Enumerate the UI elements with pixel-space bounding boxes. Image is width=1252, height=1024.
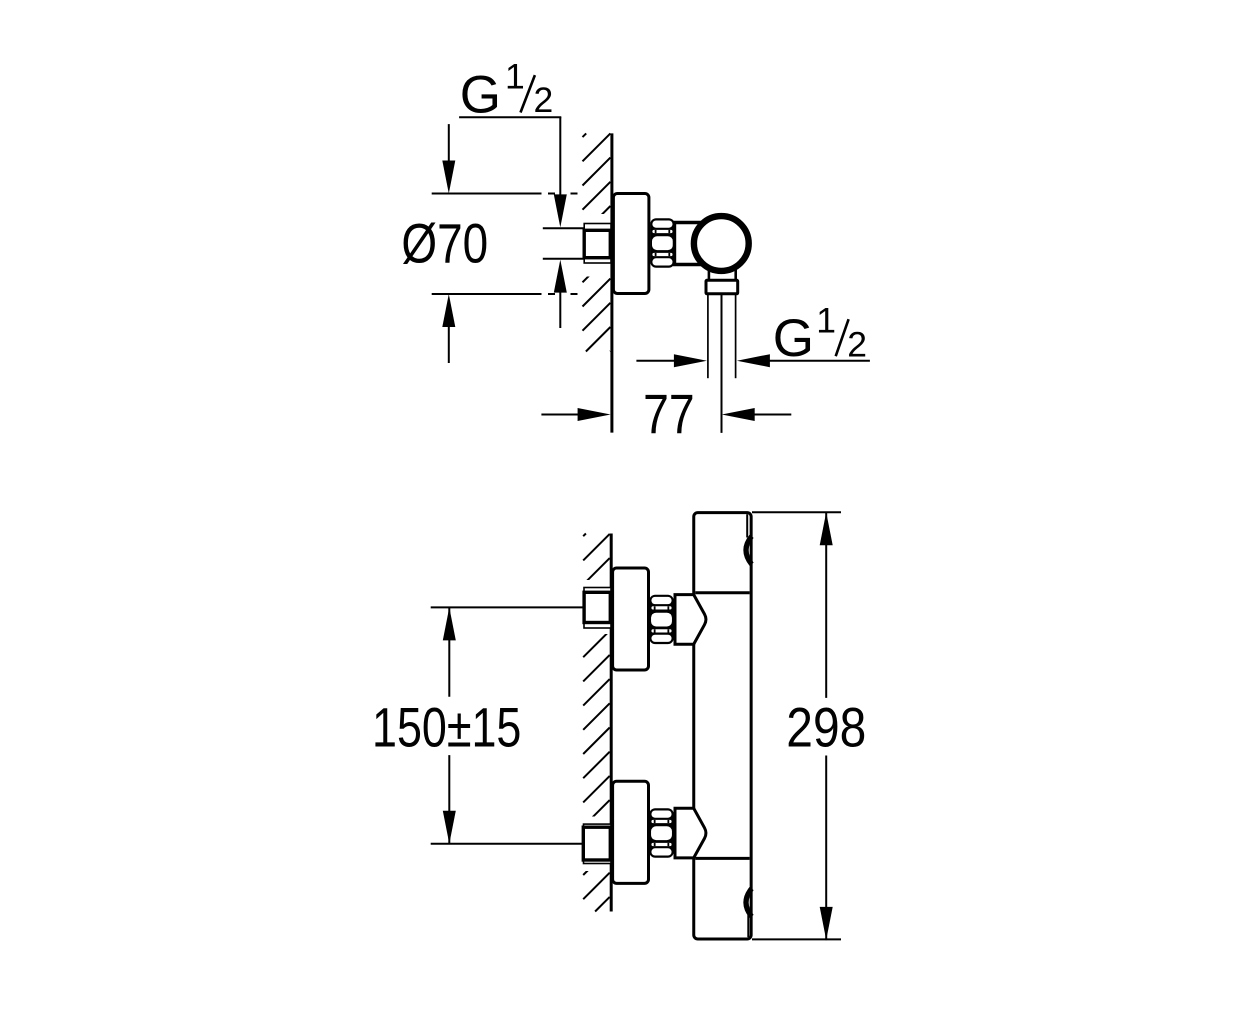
dim line D70 bottom extension	[432, 293, 542, 295]
bottom union square nut (bottom view)	[583, 827, 610, 860]
top hex nut (bottom view)	[649, 595, 674, 644]
bottom escutcheon flange (bottom view)	[613, 781, 649, 883]
298 dim bottom extension line	[752, 938, 841, 940]
G 1/2 right dim left arrow	[636, 360, 675, 362]
escutcheon flange (top view)	[613, 194, 649, 294]
supply pipe (top view)	[543, 227, 585, 229]
wall line (bottom view)	[610, 534, 613, 912]
faucet body (bottom view)	[694, 513, 751, 939]
77 dim right arrow	[722, 408, 755, 421]
wall hatching (top view)	[583, 133, 587, 137]
77 dim left arrow	[541, 414, 579, 416]
collar nut (top view)	[706, 280, 738, 294]
neck below knob (top view)	[708, 266, 711, 280]
hose centerline (top view)	[721, 294, 723, 433]
bottom hex nut (bottom view)	[649, 808, 674, 857]
svg-text:298: 298	[786, 696, 866, 759]
bottom inlet nipple taper (bottom view)	[675, 808, 706, 858]
leader vertical + arrow down (G 1/2 top)	[559, 117, 561, 196]
G 1/2 right dim right arrow	[737, 354, 770, 367]
hatch gap around union (top view)	[578, 214, 611, 277]
valve body (top view)	[675, 223, 707, 265]
298 dim line lower part	[825, 756, 827, 941]
hatch gap around top union (bottom view)	[579, 580, 611, 634]
leader line under G 1/2 (top)	[459, 116, 561, 118]
top union washer (bottom view)	[584, 588, 611, 629]
D70 arrow up	[442, 294, 455, 327]
hatch gap around bottom union (bottom view)	[579, 817, 611, 872]
bottom screw recess arc	[746, 889, 752, 917]
top escutcheon flange (bottom view)	[613, 568, 649, 670]
svg-text:150±15: 150±15	[372, 695, 521, 758]
bottom union washer (bottom view)	[584, 824, 612, 863]
arrow up (G 1/2 top)	[554, 260, 567, 293]
union washer (top view)	[584, 224, 611, 264]
svg-text:1: 1	[816, 300, 836, 340]
298 dim line upper part	[825, 512, 827, 698]
150 dim line lower part	[448, 755, 450, 844]
150 dim top extension line	[431, 606, 584, 608]
svg-text:G: G	[460, 66, 501, 125]
150 dim line upper part	[448, 607, 450, 696]
top union square nut (bottom view)	[584, 592, 610, 622]
body separation line top	[695, 591, 749, 594]
150 dim bottom extension line	[431, 843, 584, 845]
svg-text:77: 77	[643, 382, 695, 445]
svg-text:1: 1	[505, 57, 525, 97]
thermostat knob circle (top view)	[694, 216, 749, 271]
dim line D70 top extension	[432, 193, 542, 195]
svg-text:2: 2	[534, 80, 554, 120]
hose outer lines (top view)	[707, 294, 709, 378]
svg-text:Ø70: Ø70	[401, 212, 488, 275]
union square nut (top view)	[584, 230, 610, 257]
298 dim top extension line	[752, 511, 841, 513]
hex nut (top view)	[650, 218, 675, 267]
top inlet nipple taper (bottom view)	[675, 595, 706, 645]
svg-text:2: 2	[847, 324, 867, 364]
wall hatching (bottom view)	[583, 534, 586, 537]
svg-text:G: G	[773, 309, 814, 368]
body separation line bottom	[695, 857, 749, 860]
top screw recess arc	[746, 536, 752, 564]
D70 arrow down	[448, 124, 450, 162]
wall line (top view)	[610, 133, 613, 432]
